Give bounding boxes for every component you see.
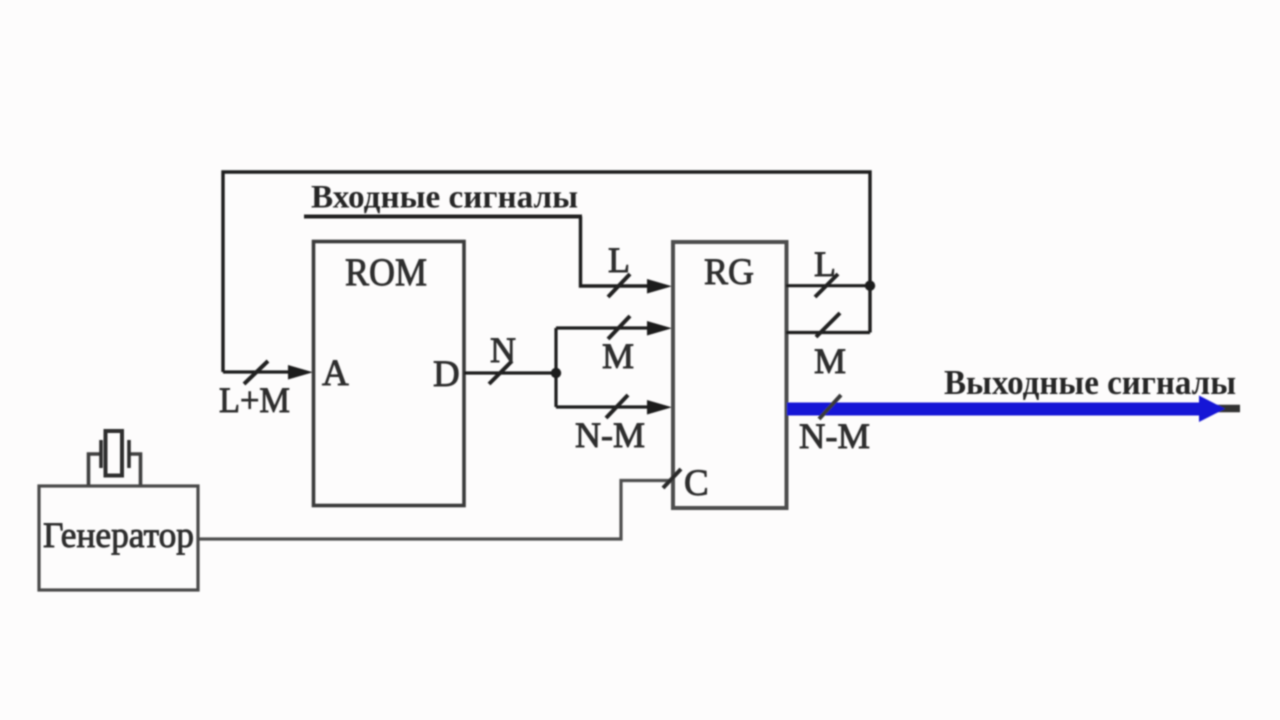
blue output bus N-M arrow (787, 403, 1200, 416)
wire L from input signals corner down (581, 217, 652, 287)
svg-text:A: A (322, 353, 349, 394)
RG box U2 (673, 242, 787, 508)
wire bus into ROM A input (223, 370, 292, 373)
svg-text:C: C (684, 463, 709, 504)
bus slash M (608, 316, 630, 339)
wire M input to RG (556, 326, 651, 329)
svg-text:N-M: N-M (575, 415, 645, 455)
svg-text:D: D (433, 354, 460, 395)
crystal right plate (127, 440, 131, 468)
svg-text:Выходные сигналы: Выходные сигналы (944, 363, 1236, 402)
wire stub behind blue arrow tip (1216, 405, 1240, 413)
svg-text:M: M (814, 341, 846, 381)
svg-text:L: L (814, 244, 836, 284)
node branch junction (551, 368, 561, 378)
bus slash L+M (244, 361, 268, 384)
crystal body (106, 431, 123, 476)
wire feedback loop L+M (left vertical, top horizontal, right vertical) (223, 172, 870, 372)
bus slash L (608, 274, 630, 297)
arrowhead N-M into RG (647, 400, 672, 415)
bus slash N-M (606, 395, 628, 418)
underline of Входные сигналы (304, 215, 582, 219)
svg-text:ROM: ROM (345, 251, 427, 294)
wire L output of RG (786, 284, 870, 287)
svg-text:Генератор: Генератор (43, 515, 194, 555)
svg-text:L+M: L+M (219, 380, 290, 420)
svg-text:RG: RG (704, 252, 754, 293)
wire D output bus N (464, 371, 556, 374)
svg-text:Входные сигналы: Входные сигналы (311, 180, 578, 216)
svg-text:M: M (602, 336, 634, 376)
svg-text:N: N (490, 330, 516, 370)
node L junction on feedback (865, 281, 875, 291)
crystal X1 leads (89, 454, 102, 485)
arrowhead M into RG (647, 321, 672, 336)
bus slash N (489, 361, 512, 384)
svg-text:L: L (608, 240, 630, 280)
arrowhead L into RG (647, 279, 672, 294)
arrowhead into A (288, 365, 313, 380)
wire branch vertical (554, 328, 557, 407)
bus slash M out (816, 313, 840, 337)
crystal left plate (99, 440, 103, 468)
bus slash L out (815, 274, 838, 297)
wire N-M input to RG (556, 405, 651, 408)
ROM box U1 (314, 242, 465, 506)
wire clock from generator to C (198, 481, 673, 540)
generator box (39, 486, 198, 590)
bus slash C (663, 469, 681, 488)
wire M output of RG (786, 331, 870, 334)
bus slash N-M out (819, 395, 841, 419)
svg-text:N-M: N-M (799, 416, 870, 456)
